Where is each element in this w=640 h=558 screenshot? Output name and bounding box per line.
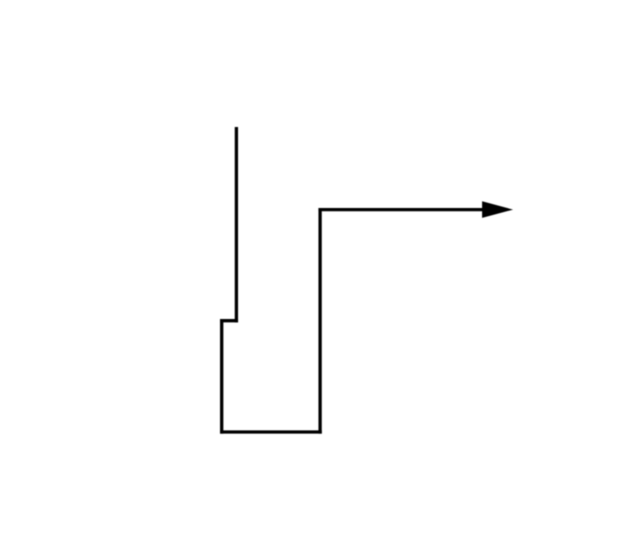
wire: left vertical segment from top [235, 127, 238, 322]
arrowhead [482, 201, 513, 218]
wire: short horizontal jog [220, 319, 238, 322]
wire: lower-left vertical segment [220, 319, 223, 434]
wire: bottom horizontal segment [220, 430, 322, 433]
wire: right vertical segment [318, 208, 321, 434]
wire: arrow shaft horizontal segment [318, 208, 484, 211]
